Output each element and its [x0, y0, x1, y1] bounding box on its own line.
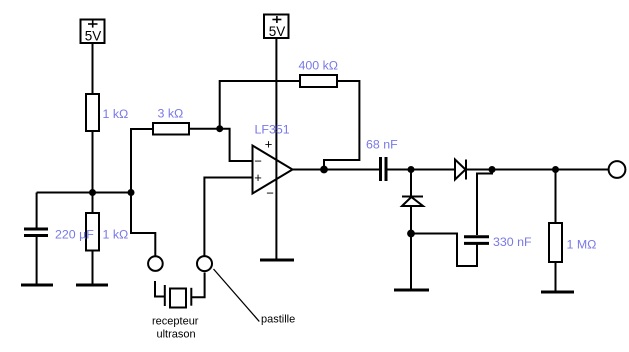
- svg-text:ultrason: ultrason: [157, 329, 196, 341]
- wire D1 to node E: [410, 206, 412, 234]
- diode D1 triangle: [402, 197, 423, 206]
- wire D2 to node F: [466, 169, 492, 171]
- diode D2 cathode bar: [465, 160, 467, 180]
- svg-text:+: +: [265, 137, 273, 152]
- op-amp U1 triangle: [253, 146, 293, 194]
- V1 plus sign: [88, 20, 98, 27]
- wire V2 supply rail through op-amp: [275, 38, 277, 260]
- V2 plus sign: [272, 16, 281, 23]
- diode D1 cathode bar: [402, 196, 423, 198]
- wire node D to diode D2: [411, 169, 455, 171]
- ground G5: [541, 291, 574, 294]
- svg-text:pastille: pastille: [261, 314, 295, 326]
- ground G3 op-amp: [260, 259, 294, 262]
- junction node G dot: [552, 166, 559, 173]
- wire node B up to R3: [131, 129, 153, 193]
- capacitor C3 330nF plates: [464, 237, 489, 244]
- pastille P1 circle: [148, 256, 163, 271]
- wire node A to R2: [92, 193, 94, 214]
- ground G2: [76, 284, 108, 287]
- resistor R3 3k body: [153, 123, 189, 135]
- wire node A to C1: [36, 193, 38, 229]
- svg-text:330 nF: 330 nF: [493, 235, 532, 249]
- svg-text:recepteur: recepteur: [152, 316, 199, 328]
- resistor R2 1k body: [86, 213, 99, 251]
- svg-text:1 MΩ: 1 MΩ: [567, 238, 597, 252]
- svg-text:−: −: [266, 186, 274, 201]
- wire C2 to node D: [388, 169, 412, 171]
- svg-text:220 µF: 220 µF: [55, 228, 94, 242]
- transducer RX left electrode: [164, 285, 166, 306]
- junction node C dot: [216, 125, 223, 132]
- wire feedback right: [324, 81, 359, 170]
- supply box V2 +5V: [264, 15, 289, 39]
- capacitor C1 220uF plates: [24, 229, 48, 236]
- svg-text:400 kΩ: 400 kΩ: [299, 59, 339, 73]
- junction node F dot: [489, 166, 496, 173]
- transducer RX crystal square: [170, 289, 186, 308]
- output terminal circle: [609, 161, 626, 178]
- svg-text:−: −: [254, 154, 262, 169]
- wire node F to node G: [492, 169, 608, 171]
- transducer RX right electrode: [190, 288, 192, 306]
- junction output node dot: [320, 166, 328, 174]
- ground G1: [21, 284, 53, 287]
- wire R5 to ground: [555, 262, 557, 292]
- wire node C to op-amp - input: [220, 129, 253, 161]
- wire node F to C3 top: [477, 170, 492, 236]
- wire R2 to ground: [92, 251, 94, 286]
- wire R1 to node A: [92, 131, 94, 193]
- svg-text:1 kΩ: 1 kΩ: [103, 107, 129, 121]
- pastille P2 circle: [197, 256, 212, 271]
- ground G4: [394, 289, 429, 292]
- wire V1 to R1: [92, 43, 94, 94]
- transducer RX left bracket: [155, 281, 164, 297]
- junction node B dot: [128, 189, 135, 196]
- wire C1 to ground: [36, 237, 38, 285]
- wire feedback left: [220, 81, 300, 129]
- wire node B to pastille P1: [131, 193, 155, 257]
- svg-text:3 kΩ: 3 kΩ: [158, 107, 184, 121]
- svg-text:+: +: [254, 170, 262, 185]
- wire node D to diode D1: [410, 170, 412, 198]
- wire node E to ground: [410, 234, 412, 291]
- wire C3 bottom to node E: [411, 234, 477, 267]
- supply box V1 +5V: [81, 20, 105, 44]
- resistor R4 400k body: [300, 75, 337, 87]
- junction node A dot: [89, 189, 96, 196]
- transducer RX right bracket: [192, 273, 205, 298]
- svg-text:1 kΩ: 1 kΩ: [103, 228, 129, 242]
- svg-text:5V: 5V: [269, 24, 286, 39]
- capacitor C2 68nF plates: [381, 157, 387, 181]
- resistor R1 1k body: [86, 94, 99, 131]
- wire P2 to op-amp + input: [204, 178, 252, 257]
- pastille pointer line: [214, 269, 260, 322]
- junction node D dot: [408, 166, 415, 173]
- wire R3 to node C: [189, 128, 220, 130]
- resistor R5 1M body: [549, 223, 562, 262]
- svg-text:5V: 5V: [85, 29, 102, 44]
- wire node G to R5: [555, 170, 557, 224]
- junction node E dot: [407, 230, 415, 238]
- svg-text:LF351: LF351: [255, 123, 290, 137]
- svg-text:68 nF: 68 nF: [366, 138, 398, 152]
- wire horizontal node row: [37, 192, 131, 194]
- diode D2 triangle: [455, 160, 466, 180]
- wire op-amp output: [293, 169, 380, 171]
